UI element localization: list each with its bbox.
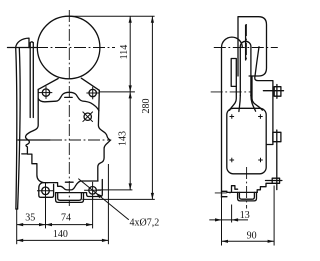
dimension 140 xyxy=(17,229,109,242)
vertical centerline front view xyxy=(68,10,70,206)
plate screw cross marks xyxy=(230,114,263,162)
leader 4xO7,2 xyxy=(78,179,159,229)
bottom hole right xyxy=(84,182,101,199)
cable tray front view xyxy=(56,193,86,203)
extension line top tangent xyxy=(69,15,154,17)
side view vertical centerline bottom xyxy=(246,167,248,209)
side view: back panel outline xyxy=(255,47,284,145)
bottom hole left xyxy=(37,182,54,199)
side view: lever arm rect xyxy=(231,59,236,87)
hump center tick xyxy=(65,96,73,98)
svg-text:90: 90 xyxy=(247,231,257,242)
svg-text:280: 280 xyxy=(141,99,152,114)
dimension 143 xyxy=(117,92,131,190)
svg-text:114: 114 xyxy=(119,45,130,60)
tray side view outer xyxy=(238,192,257,201)
svg-text:140: 140 xyxy=(53,229,68,240)
side view: top tab screw xyxy=(274,85,281,99)
dimension 74 xyxy=(46,213,93,227)
side view: push rod strip xyxy=(230,41,263,111)
left foot lug xyxy=(39,182,54,197)
lever top cap xyxy=(16,38,29,48)
side view: lower tab screw xyxy=(273,130,281,190)
dimension 35 xyxy=(17,213,46,227)
body left edge with clamp wave xyxy=(26,89,48,182)
side view horizontal centerline holes xyxy=(211,91,252,93)
side view: lever boss arc xyxy=(222,37,243,47)
step flange line xyxy=(22,153,28,155)
bottom seam with dip xyxy=(42,181,98,190)
right corner tab xyxy=(266,178,282,183)
side view horizontal centerline upper xyxy=(214,47,278,49)
extension line body bottom xyxy=(82,198,155,200)
seam center tick xyxy=(65,181,73,183)
lever mount bar xyxy=(30,42,33,118)
dimension 114 xyxy=(119,16,132,92)
svg-text:74: 74 xyxy=(61,213,71,224)
top mounting hole right xyxy=(86,87,99,100)
svg-text:13: 13 xyxy=(240,210,250,221)
dimension 90 xyxy=(222,186,275,246)
side view: body left edge xyxy=(221,48,223,198)
extension lines bottom dims xyxy=(17,164,109,244)
right foot lug xyxy=(87,180,103,197)
extension below body edge xyxy=(221,198,223,246)
svg-text:4xØ7,2: 4xØ7,2 xyxy=(130,218,160,229)
lever blade xyxy=(16,48,20,209)
extension line foot bottom xyxy=(97,189,132,191)
conduit stub xyxy=(215,191,231,196)
extension line holes level xyxy=(99,91,135,93)
roller circle (front view) xyxy=(37,16,100,79)
dimension 13 xyxy=(209,205,250,223)
body right edge with shaft tooth xyxy=(98,90,111,181)
side view: cover plate xyxy=(227,108,266,174)
svg-text:143: 143 xyxy=(117,131,128,146)
horizontal centerline front view xyxy=(8,47,116,49)
shaft axis centerline xyxy=(18,139,111,141)
screw symbol xyxy=(83,112,93,122)
side view: rod inner line xyxy=(245,25,247,60)
dimension 280 xyxy=(141,16,154,199)
body shoulder slopes xyxy=(38,78,99,90)
bracket right staircase xyxy=(257,183,272,192)
side view: D shaped roller xyxy=(238,17,267,76)
top mounting hole left xyxy=(38,86,52,99)
svg-text:35: 35 xyxy=(25,213,35,224)
side view vertical centerline top xyxy=(245,24,247,62)
bracket top line xyxy=(227,191,257,193)
bracket left staircase xyxy=(232,186,238,193)
tray side view inner xyxy=(239,192,254,199)
cover seam with center hump xyxy=(38,92,99,111)
